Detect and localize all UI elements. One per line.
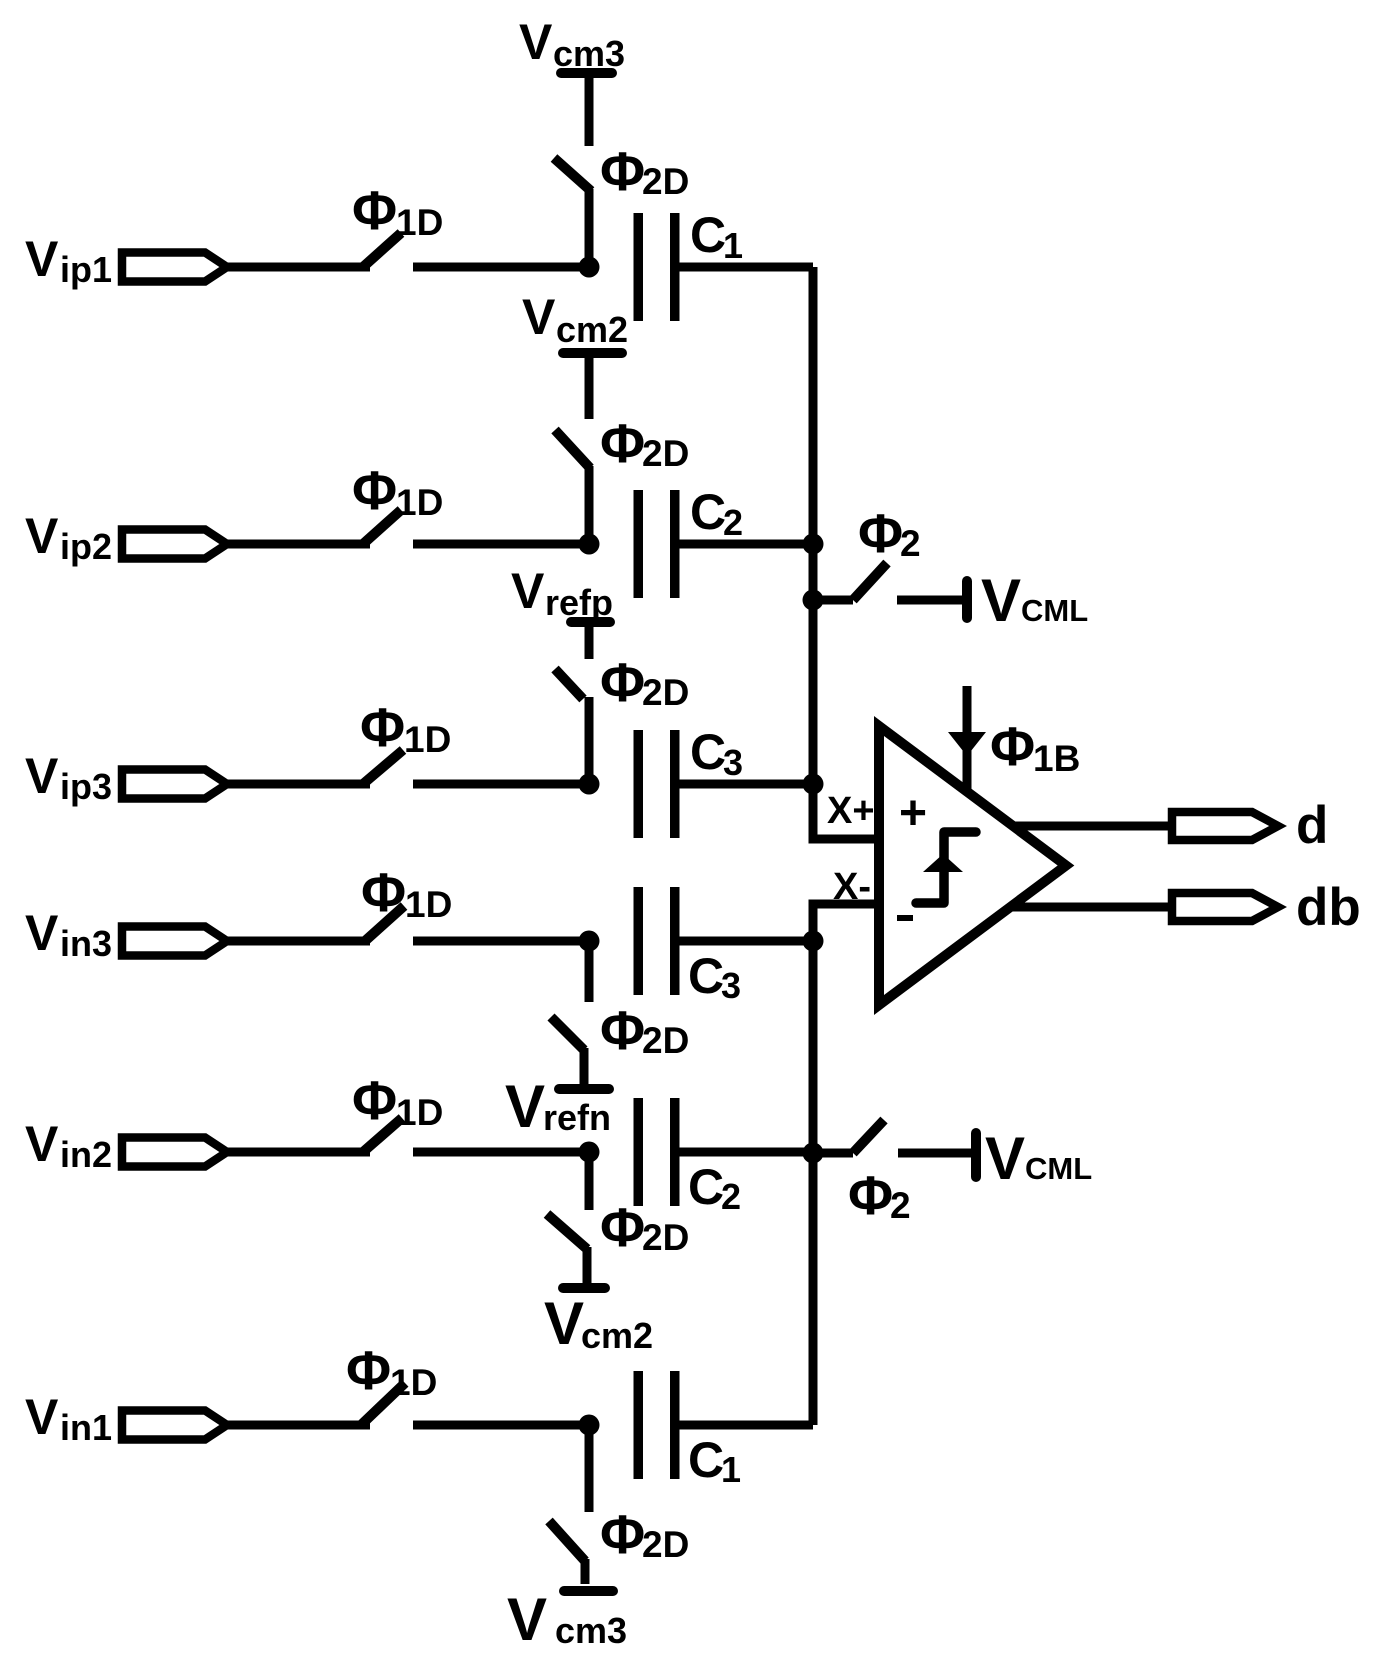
svg-text:+: + — [899, 787, 927, 840]
wire cap to bus row6 — [679, 1421, 813, 1430]
node bus row2 — [803, 534, 824, 555]
svg-text:in2: in2 — [60, 1134, 112, 1175]
svg-text:Φ: Φ — [600, 1503, 645, 1565]
wire phi2D to node row1 — [585, 189, 594, 267]
svg-text:C: C — [690, 207, 726, 263]
svg-text:CML: CML — [1025, 1151, 1092, 1186]
svg-text:1D: 1D — [390, 1362, 437, 1403]
node bus row3 — [803, 774, 824, 795]
wire phi2D stub row6 — [581, 1559, 590, 1584]
wire Vin1 port to switch — [227, 1421, 370, 1430]
svg-text:V: V — [25, 508, 59, 564]
svg-text:ip1: ip1 — [60, 249, 112, 290]
clock phi1B arrowhead — [948, 732, 986, 756]
wire switch to cap row2 — [413, 540, 589, 549]
svg-text:C: C — [688, 1432, 724, 1488]
wire phi2 top stub — [813, 596, 853, 605]
svg-text:V: V — [519, 14, 553, 70]
svg-text:Φ: Φ — [858, 502, 903, 564]
wire switch to cap row1 — [413, 263, 589, 272]
svg-text:in3: in3 — [60, 923, 112, 964]
svg-text:2D: 2D — [642, 1524, 689, 1565]
svg-text:1D: 1D — [404, 719, 451, 760]
capacitor C1 plates row1 — [634, 213, 644, 321]
svg-text:V: V — [507, 1586, 547, 1653]
comparator U1 triangle — [879, 726, 1066, 1005]
svg-text:2: 2 — [890, 1185, 911, 1226]
svg-text:refn: refn — [543, 1097, 611, 1138]
capacitor C2 plates row2 — [634, 490, 644, 598]
wire Vcm2 stub — [585, 353, 594, 419]
svg-text:Φ: Φ — [600, 412, 645, 474]
svg-text:V: V — [25, 748, 59, 804]
wire switch to cap row3 — [413, 780, 589, 789]
wire Vip1 port to switch — [227, 263, 370, 272]
svg-text:in1: in1 — [60, 1407, 112, 1448]
svg-text:CML: CML — [1021, 593, 1088, 628]
switch phi2D lever row3 — [555, 669, 583, 699]
wire switch to cap row4 — [413, 937, 589, 946]
capacitor C2 plates row5 — [634, 1098, 644, 1206]
svg-text:d: d — [1296, 796, 1328, 855]
svg-text:Φ: Φ — [600, 651, 645, 713]
clock phi1B wire — [963, 686, 972, 789]
wire switch to cap row5 — [413, 1148, 589, 1157]
node bus phi2 bottom — [803, 1143, 824, 1164]
switch phi1D lever row5 — [363, 1118, 402, 1152]
terminal bar VCML top — [962, 581, 972, 618]
svg-text:2D: 2D — [642, 1020, 689, 1061]
wire phi2 bottom stub — [813, 1149, 853, 1158]
wire output db — [1010, 903, 1170, 912]
output port d — [1172, 812, 1278, 840]
wire cap to bus row3 — [679, 780, 813, 789]
svg-text:db: db — [1296, 878, 1361, 937]
wire Vin3 port to switch — [227, 937, 370, 946]
node cap-top row4 — [579, 931, 600, 952]
svg-text:V: V — [522, 289, 556, 345]
terminal bar VCML bottom — [971, 1133, 981, 1177]
svg-text:cm3: cm3 — [553, 33, 625, 74]
wire node to phi2D row4 — [585, 941, 594, 1002]
svg-text:Φ: Φ — [352, 1069, 397, 1131]
switch phi2D lever row5 — [547, 1214, 587, 1249]
svg-text:cm2: cm2 — [556, 309, 628, 350]
svg-text:V: V — [25, 1116, 59, 1172]
switch phi1D lever row2 — [363, 510, 401, 544]
node bus row4 — [803, 931, 824, 952]
wire phi2D stub row5 — [583, 1247, 592, 1283]
terminal bar Vcm3 — [564, 1586, 613, 1596]
capacitor C1 plates row6 — [634, 1371, 644, 1479]
switch phi1D lever row4 — [365, 906, 404, 941]
wire Vip2 port to switch — [227, 540, 370, 549]
node cap-top row5 — [579, 1142, 600, 1163]
svg-text:V: V — [25, 1389, 59, 1445]
input port Vin3 — [122, 927, 227, 956]
terminal bar Vrefp — [571, 617, 610, 627]
switch phi1D lever row1 — [363, 233, 401, 267]
wire Vin2 port to switch — [227, 1148, 370, 1157]
switch phi2 top lever — [853, 563, 887, 600]
svg-text:2D: 2D — [642, 161, 689, 202]
svg-text:2: 2 — [900, 523, 921, 564]
output port db — [1172, 893, 1278, 921]
svg-text:Φ: Φ — [352, 179, 397, 241]
switch phi2D lever row6 — [549, 1521, 585, 1561]
input port Vip2 — [122, 530, 227, 559]
svg-text:X-: X- — [833, 866, 871, 908]
svg-text:ip2: ip2 — [60, 526, 112, 567]
svg-text:Φ: Φ — [352, 459, 397, 521]
switch phi2D lever row1 — [554, 158, 591, 191]
switch phi1D lever row6 — [361, 1383, 405, 1425]
svg-text:Φ: Φ — [600, 1196, 645, 1258]
svg-text:2: 2 — [723, 502, 743, 543]
capacitor C3 plates row3 — [634, 730, 644, 838]
svg-text:C: C — [688, 1159, 724, 1215]
svg-text:Φ: Φ — [600, 140, 645, 202]
terminal bar Vcm2 — [563, 1283, 605, 1293]
svg-text:2D: 2D — [642, 433, 689, 474]
wire cap to bus row4 — [679, 937, 813, 946]
svg-text:1D: 1D — [396, 1092, 443, 1133]
node cap-top row6 — [579, 1415, 600, 1436]
svg-text:2D: 2D — [642, 672, 689, 713]
svg-text:V: V — [25, 231, 59, 287]
svg-text:1: 1 — [721, 1449, 741, 1490]
svg-text:Φ: Φ — [848, 1164, 893, 1226]
svg-text:V: V — [544, 1290, 584, 1357]
svg-text:1D: 1D — [396, 482, 443, 523]
terminal bar Vrefn — [559, 1084, 609, 1094]
input port Vin1 — [122, 1411, 227, 1440]
svg-text:2: 2 — [721, 1176, 741, 1217]
input port Vip1 — [122, 253, 227, 282]
switch phi2 bottom lever — [853, 1120, 884, 1153]
svg-text:C: C — [690, 484, 726, 540]
svg-text:1D: 1D — [396, 202, 443, 243]
svg-text:V: V — [505, 1073, 545, 1140]
svg-text:V: V — [985, 1125, 1025, 1192]
svg-text:1: 1 — [723, 225, 743, 266]
svg-text:1B: 1B — [1033, 738, 1080, 779]
switch phi1D lever row3 — [363, 750, 403, 784]
wire output d — [1012, 822, 1170, 831]
svg-text:Φ: Φ — [360, 696, 405, 758]
svg-text:2D: 2D — [642, 1217, 689, 1258]
wire switch to cap row6 — [413, 1421, 589, 1430]
wire Vrefp stub — [585, 622, 594, 659]
node cap-top row1 — [579, 257, 600, 278]
wire Vcm3 stub — [585, 73, 594, 146]
comparator hysteresis symbol — [916, 832, 976, 903]
wire node to phi2D row6 — [585, 1425, 594, 1512]
node cap-top row3 — [579, 774, 600, 795]
wire phi2D to node row2 — [585, 466, 594, 544]
svg-text:Φ: Φ — [346, 1339, 391, 1401]
wire phi2D stub row4 — [580, 1048, 589, 1085]
switch phi2D lever row4 — [551, 1017, 584, 1050]
svg-text:Φ: Φ — [361, 861, 406, 923]
terminal bar Vcm3 — [561, 68, 612, 78]
wire cap to bus row2 — [679, 540, 813, 549]
comparator minus input — [897, 915, 913, 921]
wire X+ bus — [813, 267, 874, 839]
svg-text:Φ: Φ — [600, 999, 645, 1061]
svg-text:1D: 1D — [405, 884, 452, 925]
wire X- bus — [813, 904, 874, 1425]
svg-text:refp: refp — [545, 582, 613, 623]
switch phi2D lever row2 — [555, 430, 590, 468]
capacitor C3 plates row4 — [634, 887, 644, 995]
terminal bar Vcm2 — [563, 348, 622, 358]
wire cap to bus row5 — [679, 1148, 813, 1157]
svg-text:ip3: ip3 — [60, 766, 112, 807]
svg-text:cm3: cm3 — [555, 1610, 627, 1651]
svg-text:X+: X+ — [827, 790, 875, 832]
wire phi2D to node row3 — [585, 697, 594, 784]
svg-text:C: C — [688, 948, 724, 1004]
input port Vin2 — [122, 1138, 227, 1167]
wire phi2 top to VCML — [897, 596, 963, 605]
wire cap to bus row1 — [679, 263, 813, 272]
svg-text:Φ: Φ — [990, 715, 1035, 777]
wire phi2 bottom to VCML — [898, 1149, 972, 1158]
input port Vip3 — [122, 770, 227, 799]
svg-text:V: V — [981, 567, 1021, 634]
node cap-top row2 — [579, 534, 600, 555]
svg-text:V: V — [511, 563, 545, 619]
svg-text:C: C — [690, 724, 726, 780]
svg-text:3: 3 — [723, 742, 743, 783]
node bus phi2 top — [803, 590, 824, 611]
svg-text:V: V — [25, 905, 59, 961]
wire node to phi2D row5 — [585, 1152, 594, 1210]
svg-text:cm2: cm2 — [581, 1315, 653, 1356]
svg-text:3: 3 — [721, 965, 741, 1006]
wire Vip3 port to switch — [227, 780, 370, 789]
